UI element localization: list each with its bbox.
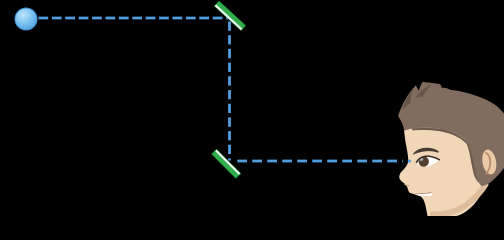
wire: last dash fragment at eye — [408, 160, 411, 163]
hair streak 1 — [402, 89, 414, 111]
wire: dashed ray from bottom mirror to eye — [237, 160, 403, 163]
eye: iris — [419, 156, 429, 166]
wire: dashed ray from ball to top mirror — [39, 17, 229, 20]
eye: upper lid line — [416, 156, 439, 162]
wire: dashed ray from top mirror down to bottom mirror — [228, 22, 231, 161]
mouth: teeth — [415, 192, 432, 195]
node: light source ball — [15, 8, 37, 30]
eye: sclera — [416, 156, 439, 167]
hair streak 2 — [416, 85, 433, 99]
nostril shading — [404, 184, 411, 187]
eyebrow — [413, 148, 439, 155]
top mirror — [214, 1, 246, 32]
bottom mirror — [211, 149, 241, 179]
ear — [480, 148, 498, 175]
hairline shadow — [412, 128, 479, 183]
mouth: lip line — [415, 192, 432, 194]
hair — [398, 82, 504, 186]
head: skin base — [399, 120, 504, 216]
eye: iris glint — [419, 158, 423, 161]
jaw shadow band — [433, 185, 486, 215]
